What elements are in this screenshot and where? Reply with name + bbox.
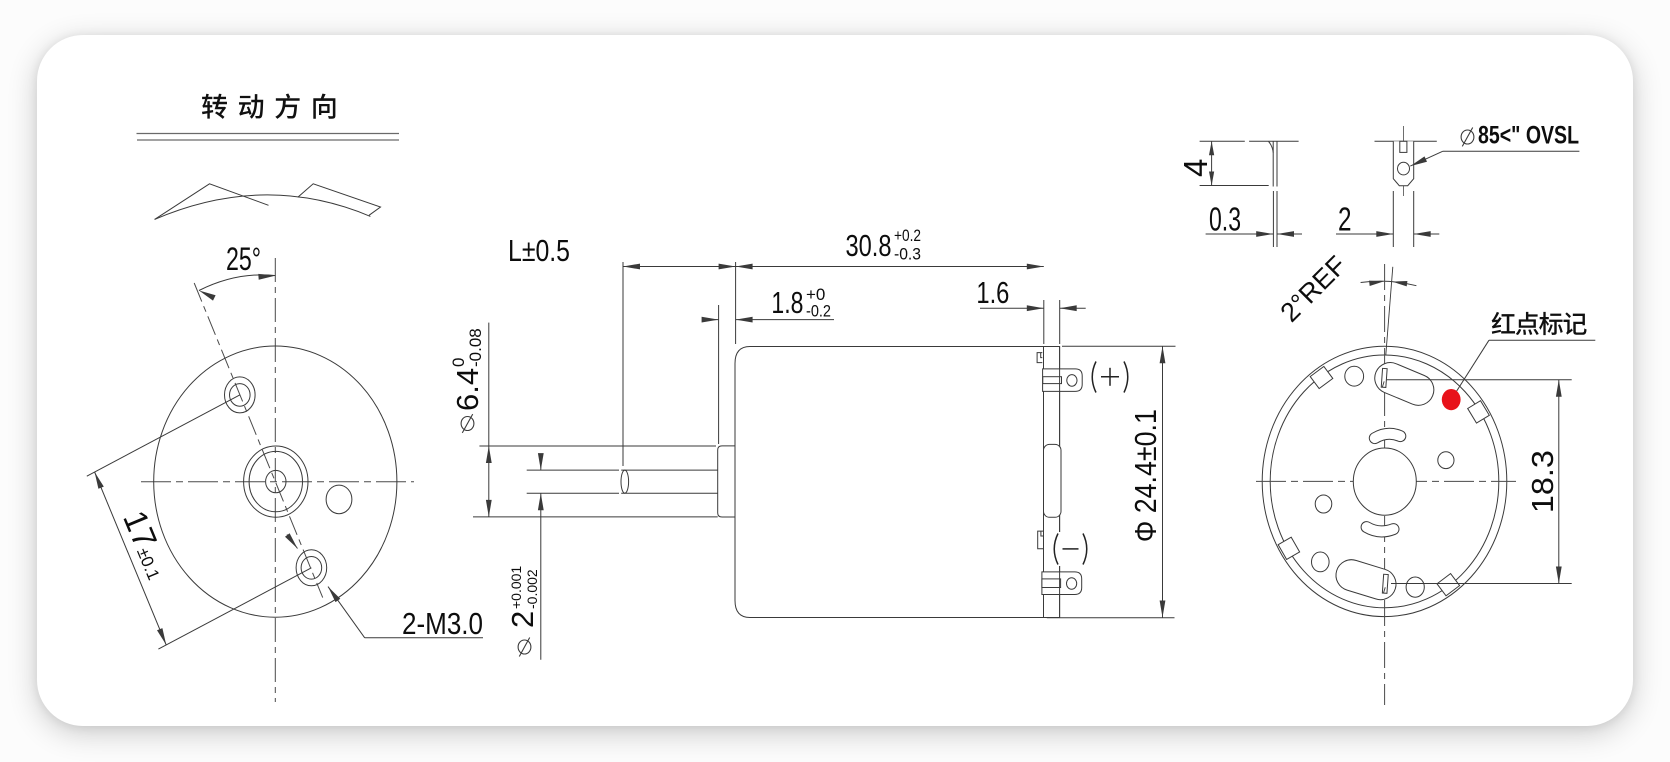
rear outer rim — [1262, 346, 1507, 616]
2-M3.0 leader arrows — [287, 535, 298, 549]
rear small hole bottom-left — [1312, 552, 1330, 572]
terminal front detail slot — [1400, 141, 1407, 152]
front view diagonal hole centerline — [194, 283, 323, 598]
upper terminal slot — [1043, 377, 1062, 384]
dia 24.4 text — [1128, 409, 1163, 542]
mounting hole M3 upper-left outer — [225, 377, 256, 413]
svg-text:2: 2 — [1338, 201, 1352, 238]
18.3 dim text — [1525, 450, 1560, 513]
1.6 dim line — [980, 307, 1044, 309]
front view horizontal centerline — [141, 481, 414, 483]
svg-text:-0.002: -0.002 — [524, 569, 540, 609]
svg-text:-0.3: -0.3 — [894, 245, 921, 264]
rear small hole top-left — [1345, 366, 1364, 386]
rear small hole left — [1315, 495, 1332, 513]
lower vent arc slot — [1367, 527, 1394, 531]
title 转动方向 (rotation direction) — [202, 94, 227, 119]
svg-text:18.3: 18.3 — [1525, 450, 1560, 513]
motor shaft — [621, 470, 629, 493]
terminal side detail top line — [1200, 140, 1245, 142]
eyelet label text — [1461, 128, 1474, 147]
endbell cap — [1044, 347, 1060, 618]
shaft bushing — [718, 446, 735, 517]
svg-text:-0.08: -0.08 — [466, 328, 485, 367]
2 deg REF text — [1274, 250, 1352, 328]
rear center hole — [1353, 448, 1416, 515]
rear view vertical centerline — [1384, 264, 1386, 705]
svg-text:-0.2: -0.2 — [806, 302, 831, 321]
center boss inner circle — [249, 451, 302, 511]
upper terminal tab rear — [1381, 368, 1387, 387]
front view vertical centerline — [274, 258, 276, 702]
4 dim text — [1177, 159, 1214, 177]
svg-text:1.8: 1.8 — [771, 285, 803, 320]
dia 24.4 extension lines — [1062, 345, 1176, 347]
terminal side detail extension strip — [1273, 191, 1277, 247]
18.3 dim extension lines — [1387, 379, 1572, 381]
18.3 dim line — [1558, 380, 1560, 584]
red dot mark label leader — [1452, 340, 1489, 398]
1.8 dim extension line — [718, 305, 720, 444]
terminal front detail centerline — [1403, 126, 1405, 196]
rim tab upper-right — [1468, 401, 1490, 423]
svg-text:25°: 25° — [226, 241, 261, 277]
minus terminal marking — [1048, 532, 1092, 566]
lower terminal slot — [1042, 579, 1061, 588]
2 dim — [1336, 233, 1393, 235]
title underline double rule — [137, 134, 400, 141]
svg-text:L±0.5: L±0.5 — [508, 233, 570, 268]
dia 2 extension lines — [527, 469, 619, 471]
upper terminal eyelet — [1067, 375, 1077, 387]
1.8 dim line — [703, 319, 719, 321]
svg-text:Φ 24.4±0.1: Φ 24.4±0.1 — [1128, 409, 1163, 542]
dia 24.4 dim line — [1162, 346, 1164, 617]
svg-text:2: 2 — [505, 611, 540, 628]
lower clip tab — [1038, 531, 1043, 549]
17 dim extension line lower — [158, 568, 311, 649]
terminal side detail strip — [1269, 141, 1277, 186]
svg-text:2°REF: 2°REF — [1274, 250, 1352, 328]
terminal front detail body — [1393, 141, 1413, 185]
upper vent arc slot — [1375, 434, 1401, 438]
center boss outer circle — [244, 446, 308, 517]
lower terminal eyelet — [1067, 578, 1077, 590]
shaft hole — [266, 470, 286, 492]
rotation direction curved arrow — [155, 184, 381, 220]
rear inner rim — [1270, 355, 1499, 608]
0.3 dim — [1206, 233, 1274, 235]
mounting hole M3 lower-right inner — [301, 557, 322, 580]
svg-text:85<" OVSL: 85<" OVSL — [1478, 122, 1579, 150]
terminal front detail top line — [1375, 140, 1437, 142]
terminal side detail bottom line — [1200, 185, 1269, 187]
upper terminal lug — [1043, 369, 1083, 392]
svg-text:30.8: 30.8 — [846, 228, 892, 263]
lower brush slot — [1336, 560, 1396, 600]
red dot mark label 红点标记 — [1492, 312, 1515, 334]
L dim extension lines — [622, 262, 624, 466]
lower terminal tab rear — [1382, 574, 1388, 593]
red dot — [1442, 389, 1461, 410]
rim tab lower-right — [1437, 574, 1460, 596]
4 dim — [1211, 141, 1213, 185]
svg-text:1.6: 1.6 — [976, 275, 1009, 310]
dia 2 dim line — [540, 455, 542, 470]
rear small hole right — [1438, 452, 1454, 469]
svg-text:+0.2: +0.2 — [894, 226, 921, 245]
svg-text:+0.001: +0.001 — [508, 566, 524, 609]
2 dim extension lines — [1392, 191, 1394, 247]
1.6 dim extension lines — [1043, 300, 1045, 344]
svg-text:0.3: 0.3 — [1209, 201, 1241, 238]
rear view horizontal centerline — [1256, 480, 1516, 482]
17 dim line — [95, 472, 167, 645]
17 dim extension line upper — [87, 395, 240, 476]
mounting hole M3 lower-right outer — [296, 550, 327, 586]
dia 6.4 dim line — [488, 446, 490, 517]
pilot hole right — [326, 485, 352, 514]
rear small hole bottom-right — [1406, 577, 1424, 597]
rim tab lower-left — [1278, 537, 1299, 559]
svg-text:2-M3.0: 2-M3.0 — [402, 606, 483, 641]
motor body outline — [735, 347, 1044, 618]
upper brush slot — [1375, 363, 1434, 406]
terminal front detail hole — [1398, 162, 1410, 175]
dia 2 text — [505, 566, 540, 628]
dia 6.4 text — [449, 328, 485, 411]
svg-text:6.4: 6.4 — [450, 368, 485, 411]
lower terminal lug — [1042, 572, 1082, 595]
mounting hole M3 upper-left inner — [230, 384, 251, 407]
endbell edge line over lugs — [1059, 347, 1061, 618]
rim tab upper-left — [1310, 366, 1333, 388]
25 deg arc dimension — [199, 274, 276, 301]
bearing boss — [1044, 444, 1062, 517]
30.8 dim line — [736, 266, 1044, 268]
upper clip tab — [1037, 353, 1042, 363]
2 deg arc dimension — [1361, 281, 1417, 286]
dia 6.4 extension lines — [479, 445, 716, 447]
17 dim text — [116, 505, 177, 584]
plus terminal marking — [1092, 362, 1128, 393]
front face outline circle — [154, 346, 397, 617]
svg-text:4: 4 — [1177, 159, 1214, 177]
2 deg tilted line — [1386, 267, 1393, 355]
L dim line — [623, 266, 736, 268]
eyelet label leader — [1410, 151, 1443, 166]
